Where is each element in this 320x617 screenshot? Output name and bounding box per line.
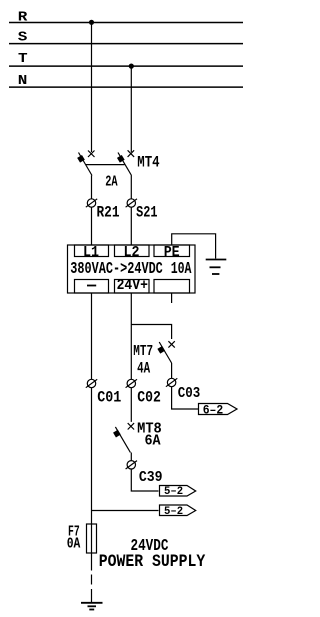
svg-text:C39: C39 xyxy=(139,469,163,486)
svg-text:POWER SUPPLY: POWER SUPPLY xyxy=(99,552,206,572)
svg-text:MT4: MT4 xyxy=(137,154,159,172)
svg-text:6A: 6A xyxy=(145,434,161,450)
svg-text:L2: L2 xyxy=(124,244,140,261)
svg-text:PE: PE xyxy=(164,244,180,261)
svg-text:L1: L1 xyxy=(83,244,99,261)
svg-text:5–2: 5–2 xyxy=(164,486,183,498)
svg-text:C02: C02 xyxy=(137,389,161,407)
svg-text:0A: 0A xyxy=(67,537,81,553)
svg-text:6–2: 6–2 xyxy=(203,404,224,418)
svg-text:2A: 2A xyxy=(105,173,117,190)
svg-text:N: N xyxy=(18,73,28,89)
svg-text:24V+: 24V+ xyxy=(117,278,148,294)
svg-text:S21: S21 xyxy=(136,203,157,221)
svg-text:R: R xyxy=(18,10,28,26)
svg-text:C03: C03 xyxy=(178,385,201,402)
svg-text:380VAC->24VDC: 380VAC->24VDC xyxy=(70,260,163,279)
svg-text:S: S xyxy=(18,29,28,45)
svg-text:T: T xyxy=(18,51,28,67)
svg-text:4A: 4A xyxy=(137,360,150,378)
svg-text:R21: R21 xyxy=(97,203,120,221)
svg-text:MT7: MT7 xyxy=(133,344,153,360)
svg-text:10A: 10A xyxy=(171,260,192,279)
svg-text:C01: C01 xyxy=(97,389,121,407)
svg-text:5–2: 5–2 xyxy=(164,506,183,518)
